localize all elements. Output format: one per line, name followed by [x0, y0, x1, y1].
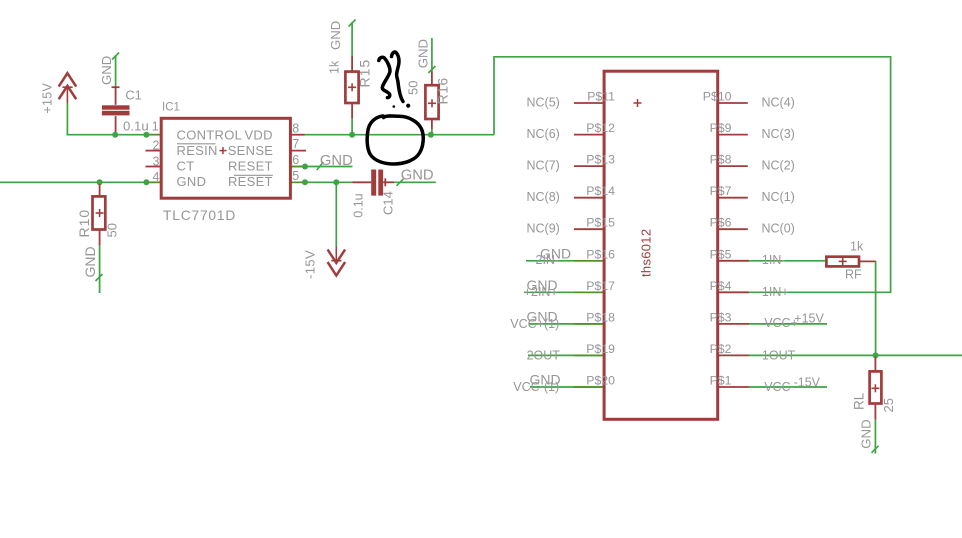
- svg-text:P$2: P$2: [710, 342, 732, 356]
- svg-text:CONTROL: CONTROL: [177, 127, 243, 142]
- svg-text:P$7: P$7: [710, 184, 732, 198]
- svg-text:5: 5: [292, 169, 299, 183]
- svg-text:NC(7): NC(7): [527, 159, 560, 173]
- svg-text:GND: GND: [82, 246, 98, 277]
- svg-text:R16: R16: [435, 77, 451, 104]
- svg-text:GND: GND: [401, 167, 434, 183]
- svg-text:1k: 1k: [328, 60, 342, 74]
- svg-text:GND: GND: [320, 153, 353, 169]
- svg-text:GND: GND: [859, 419, 874, 448]
- svg-text:P$6: P$6: [710, 216, 732, 230]
- svg-text:P$5: P$5: [710, 247, 732, 261]
- svg-text:IC1: IC1: [162, 102, 180, 114]
- svg-text:VCC+: VCC+: [764, 316, 798, 330]
- svg-text:NC(4): NC(4): [762, 96, 795, 110]
- svg-text:P$8: P$8: [710, 153, 732, 167]
- svg-text:0.1u: 0.1u: [123, 118, 149, 133]
- svg-text:P$20: P$20: [586, 374, 615, 388]
- svg-text:RESET: RESET: [228, 174, 273, 189]
- svg-text:VCC-: VCC-: [764, 380, 795, 394]
- svg-text:50: 50: [105, 223, 120, 237]
- svg-text:R10: R10: [76, 209, 92, 238]
- svg-text:NC(2): NC(2): [762, 159, 795, 173]
- svg-text:P$10: P$10: [703, 90, 732, 104]
- svg-text:VCC+(1): VCC+(1): [510, 317, 559, 331]
- svg-text:NC(1): NC(1): [762, 190, 795, 204]
- svg-text:VCC-(1): VCC-(1): [513, 380, 559, 394]
- svg-text:ths6012: ths6012: [639, 229, 654, 277]
- svg-text:+15V: +15V: [794, 311, 824, 325]
- svg-text:RESIN: RESIN: [177, 143, 218, 158]
- svg-text:NC(9): NC(9): [527, 222, 560, 236]
- svg-text:R15: R15: [357, 59, 373, 88]
- svg-text:2: 2: [152, 139, 159, 153]
- svg-text:GND: GND: [328, 21, 343, 50]
- svg-text:P$3: P$3: [710, 310, 732, 324]
- svg-text:NC(5): NC(5): [527, 96, 560, 110]
- svg-text:RESET: RESET: [228, 158, 273, 173]
- svg-text:50: 50: [406, 81, 421, 95]
- svg-text:1OUT: 1OUT: [762, 348, 796, 362]
- svg-text:P$11: P$11: [587, 90, 615, 104]
- svg-text:NC(8): NC(8): [527, 190, 560, 204]
- svg-text:NC(3): NC(3): [762, 127, 795, 141]
- svg-text:6: 6: [292, 153, 299, 167]
- svg-text:GND: GND: [416, 39, 431, 68]
- svg-text:-15V: -15V: [794, 375, 821, 389]
- svg-text:C1: C1: [125, 88, 141, 103]
- svg-text:P$18: P$18: [586, 310, 615, 324]
- svg-text:1IN-: 1IN-: [762, 253, 786, 267]
- svg-text:4: 4: [152, 170, 159, 184]
- svg-text:P$4: P$4: [710, 279, 732, 293]
- svg-text:TLC7701D: TLC7701D: [163, 208, 236, 223]
- svg-text:1k: 1k: [850, 240, 864, 254]
- svg-text:CT: CT: [177, 158, 195, 173]
- svg-text:P$13: P$13: [586, 153, 615, 167]
- svg-text:P$15: P$15: [586, 216, 615, 230]
- svg-text:1: 1: [152, 119, 159, 133]
- svg-text:+15V: +15V: [40, 82, 54, 113]
- svg-text:GND: GND: [177, 174, 207, 189]
- svg-text:GND: GND: [99, 56, 114, 85]
- svg-text:+2IN+: +2IN+: [524, 285, 558, 299]
- svg-text:2IN-: 2IN-: [536, 253, 560, 267]
- svg-text:SENSE: SENSE: [228, 143, 274, 158]
- svg-text:VDD: VDD: [244, 127, 272, 142]
- svg-text:25: 25: [881, 398, 896, 412]
- svg-text:3: 3: [152, 154, 159, 168]
- svg-text:RF: RF: [845, 268, 862, 282]
- svg-text:P$12: P$12: [586, 121, 615, 135]
- svg-text:P$14: P$14: [586, 184, 615, 198]
- svg-text:P$17: P$17: [586, 279, 615, 293]
- svg-text:C14: C14: [381, 191, 396, 215]
- svg-text:RL: RL: [852, 392, 867, 410]
- svg-text:NC(0): NC(0): [762, 222, 795, 236]
- svg-text:1IN+: 1IN+: [762, 285, 789, 299]
- svg-text:2OUT: 2OUT: [527, 348, 561, 362]
- svg-text:P$19: P$19: [586, 342, 615, 356]
- svg-text:P$1: P$1: [710, 374, 732, 388]
- svg-text:P$16: P$16: [586, 247, 615, 261]
- svg-text:-15V: -15V: [303, 250, 318, 279]
- svg-text:NC(6): NC(6): [527, 127, 560, 141]
- svg-text:P$9: P$9: [710, 121, 732, 135]
- svg-text:7: 7: [292, 137, 299, 151]
- svg-text:8: 8: [292, 121, 299, 135]
- svg-text:0.1u: 0.1u: [352, 193, 366, 217]
